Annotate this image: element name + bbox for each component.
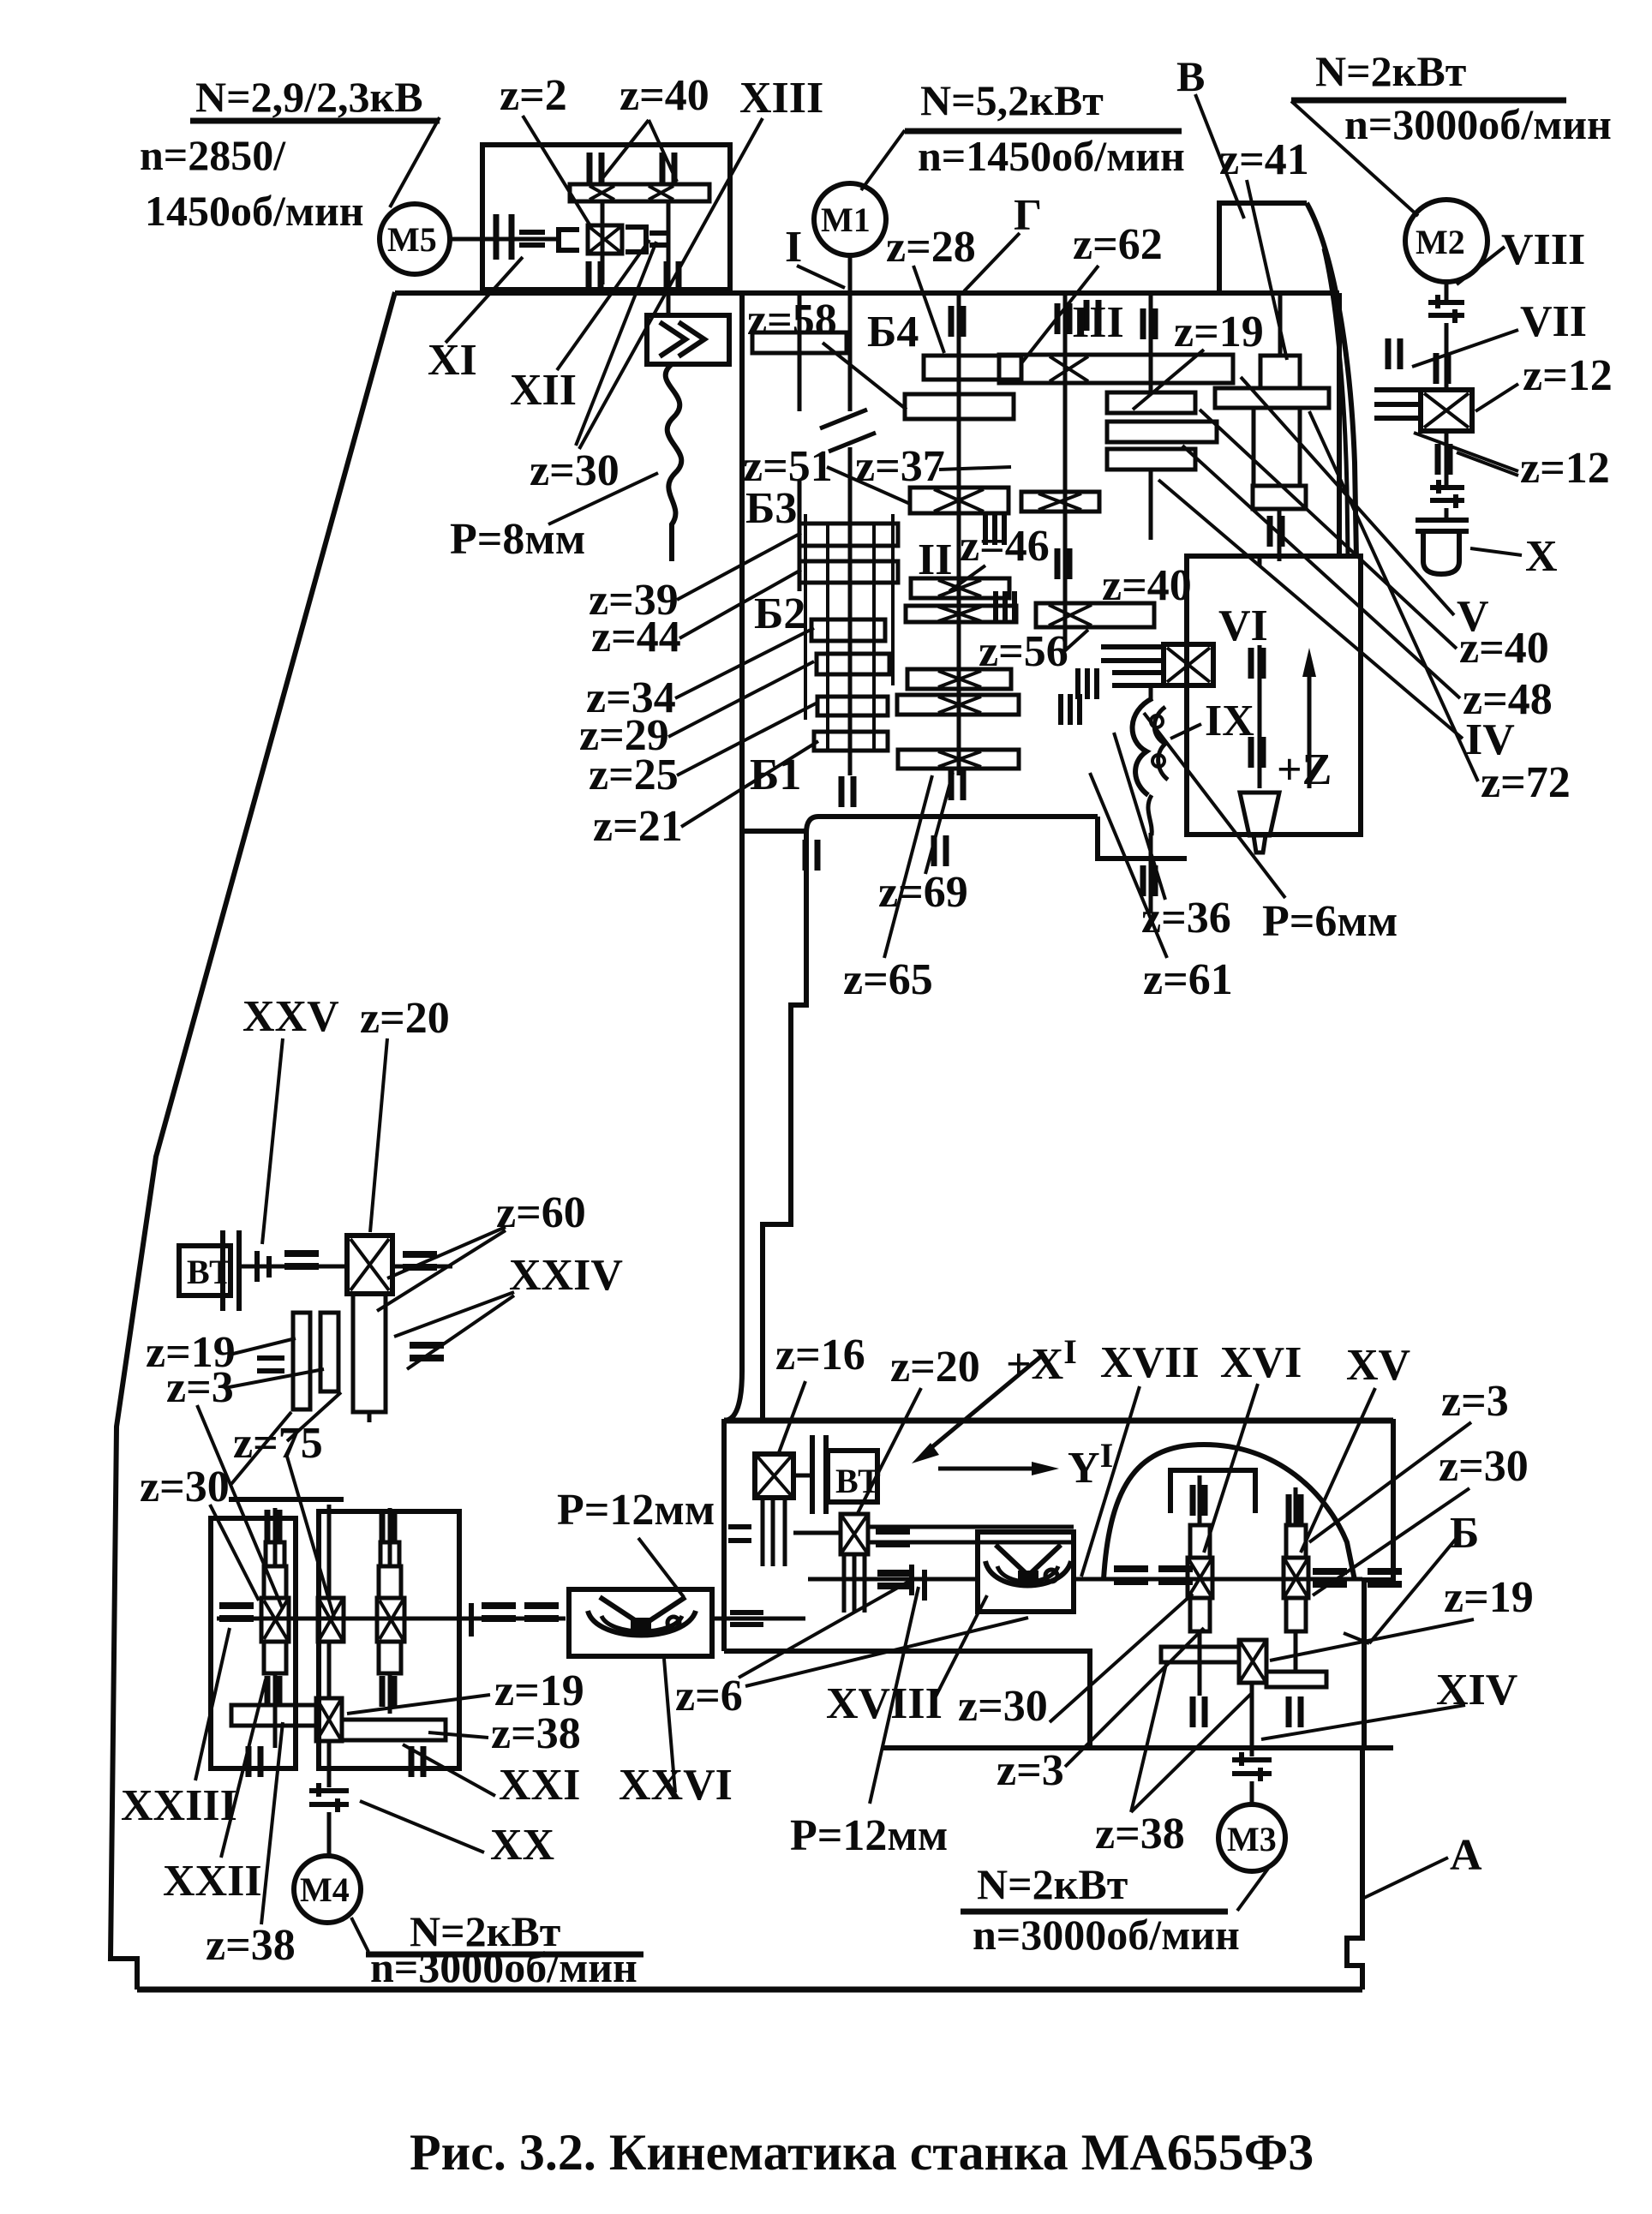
gear L bottom — [898, 750, 1019, 769]
z=19 pinion and spindle V — [1260, 356, 1300, 388]
svg-text:z=36: z=36 — [1141, 894, 1231, 942]
svg-text:XVIII: XVIII — [826, 1679, 943, 1728]
table right edge with steps — [1364, 1419, 1393, 1748]
svg-text:XIII: XIII — [739, 74, 823, 123]
z=28 gear on II — [924, 356, 1021, 380]
svg-text:z=69: z=69 — [878, 868, 968, 917]
svg-text:z=41: z=41 — [1219, 135, 1309, 184]
VI quill box — [1187, 556, 1361, 835]
head bottom edge with step — [763, 817, 1098, 1421]
chevron coupling box — [647, 315, 729, 364]
worm gear box z=2 — [588, 225, 622, 254]
coupling XI — [496, 214, 512, 260]
head bottom step to VI box — [1098, 817, 1187, 859]
svg-text:z=40: z=40 — [1459, 624, 1549, 673]
leaders lower-left — [195, 1628, 230, 1780]
main horizontal shaft — [217, 1617, 566, 1621]
svg-text:VII: VII — [1520, 297, 1587, 346]
svg-text:Р=8мм: Р=8мм — [450, 515, 585, 564]
svg-text:Б: Б — [1450, 1509, 1479, 1558]
svg-text:М2: М2 — [1416, 223, 1465, 261]
svg-text:Б1: Б1 — [750, 751, 801, 799]
svg-text:III: III — [1072, 298, 1124, 347]
bearings lower head — [805, 840, 817, 871]
column B outline — [1219, 203, 1307, 293]
svg-text:Б2: Б2 — [754, 589, 805, 638]
z=40 rack + gearbox mid — [1101, 647, 1164, 661]
svg-text:z=3: z=3 — [1441, 1377, 1509, 1426]
z=56 gear on III — [1036, 603, 1154, 627]
underlines — [190, 118, 440, 124]
svg-text:XXIII: XXIII — [121, 1781, 237, 1830]
svg-text:z=30: z=30 — [530, 446, 619, 495]
svg-text:z=19: z=19 — [1444, 1573, 1534, 1622]
svg-text:z=28: z=28 — [886, 223, 976, 272]
IV gear stack — [1107, 392, 1195, 413]
screw to saddle — [1074, 1577, 1362, 1582]
svg-text:z=65: z=65 — [843, 955, 933, 1004]
svg-text:XVI: XVI — [1220, 1338, 1302, 1387]
svg-text:XXIV: XXIV — [509, 1251, 623, 1300]
svg-text:z=56: z=56 — [979, 627, 1068, 676]
svg-text:z=40: z=40 — [619, 71, 709, 120]
svg-text:z=37: z=37 — [855, 442, 945, 491]
svg-text:Р=12мм: Р=12мм — [790, 1811, 948, 1860]
svg-text:Р=12мм: Р=12мм — [557, 1486, 715, 1535]
svg-text:z=21: z=21 — [593, 802, 683, 851]
table top line (base/saddle support) — [724, 1418, 1393, 1424]
svg-text:ВТ: ВТ — [187, 1253, 232, 1291]
svg-text:Рис. 3.2. Кинематика станка МА: Рис. 3.2. Кинематика станка МА655Ф3 — [410, 2124, 1314, 2181]
svg-text:I: I — [785, 223, 802, 272]
svg-text:z=30: z=30 — [1439, 1442, 1529, 1491]
svg-text:В: В — [1176, 52, 1205, 100]
svg-text:z=20: z=20 — [890, 1343, 980, 1391]
svg-text:1450об/мин: 1450об/мин — [145, 187, 364, 235]
block sleeves — [805, 514, 893, 751]
svg-text:Р=6мм: Р=6мм — [1262, 897, 1398, 946]
couplings on main shaft — [459, 1603, 471, 1637]
svg-text:z=12: z=12 — [1520, 444, 1610, 493]
svg-text:z=30: z=30 — [140, 1463, 230, 1511]
svg-text:XV: XV — [1346, 1341, 1410, 1390]
Б3 block — [799, 524, 898, 546]
vertical shaft at 1326 from z40 box down — [1078, 668, 1097, 699]
X1 arrow — [924, 1356, 1041, 1454]
leaders XXV cluster — [262, 1038, 283, 1244]
coupling X — [1430, 480, 1464, 508]
tool cone — [1240, 793, 1279, 835]
svg-text:n=3000об/мин: n=3000об/мин — [370, 1943, 637, 1991]
svg-text:X: X — [1525, 532, 1558, 581]
svg-text:z=44: z=44 — [591, 613, 681, 661]
svg-text:z=19: z=19 — [1174, 308, 1264, 356]
svg-text:N=5,2кВт: N=5,2кВт — [920, 76, 1104, 124]
XIV bevel — [1239, 1640, 1266, 1683]
svg-text:z=20: z=20 — [360, 994, 450, 1043]
svg-text:XXII: XXII — [163, 1857, 262, 1906]
Б4 gear — [905, 394, 1014, 419]
svg-text:XXVI: XXVI — [619, 1761, 733, 1810]
svg-text:n=2850/: n=2850/ — [140, 131, 286, 179]
ballscrew wavy line P=8mm — [666, 364, 682, 561]
leaders right side — [1457, 247, 1505, 284]
svg-text:z=19: z=19 — [494, 1666, 584, 1715]
screw shaft Y — [808, 1577, 978, 1582]
head top line — [395, 290, 1339, 296]
svg-text:n=1450об/мин: n=1450об/мин — [918, 132, 1185, 180]
leaders bottom-right — [778, 1381, 805, 1455]
svg-text:VIII: VIII — [1501, 225, 1585, 274]
svg-text:z=38: z=38 — [206, 1921, 296, 1970]
svg-text:z=3: z=3 — [166, 1363, 234, 1412]
svg-text:Б3: Б3 — [745, 484, 797, 533]
z=62 long gear on III — [999, 355, 1233, 383]
svg-text:z=46: z=46 — [960, 522, 1050, 571]
svg-text:XII: XII — [510, 366, 577, 415]
svg-text:z=30: z=30 — [958, 1682, 1048, 1731]
gear E on II — [910, 488, 1009, 513]
svg-text:z=38: z=38 — [1095, 1810, 1185, 1858]
svg-text:z=40: z=40 — [1102, 561, 1192, 610]
shaft I vertical with break — [848, 255, 853, 411]
Y1 arrow — [938, 1467, 1044, 1471]
gear H — [906, 606, 1016, 622]
Б-shaft sleeve left of I — [798, 293, 802, 591]
svg-text:IV: IV — [1465, 715, 1515, 764]
gear F on III — [1021, 492, 1099, 512]
Б1 block — [817, 697, 888, 715]
svg-text:YI: YI — [1068, 1436, 1113, 1493]
svg-text:XX: XX — [490, 1821, 554, 1870]
+Z arrow — [1308, 658, 1312, 788]
svg-text:z=38: z=38 — [491, 1709, 581, 1758]
head right edge — [1337, 293, 1342, 556]
plunger cup — [1416, 520, 1469, 531]
coupling VIII — [1428, 295, 1464, 323]
z=46 gear — [911, 578, 1009, 598]
shaft II — [957, 293, 961, 775]
svg-text:z=72: z=72 — [1481, 758, 1571, 807]
svg-text:z=12: z=12 — [1523, 351, 1613, 400]
shaft III — [1063, 293, 1068, 651]
svg-text:XI: XI — [428, 336, 477, 385]
svg-text:VI: VI — [1218, 601, 1268, 650]
leaders top-left — [390, 117, 440, 207]
saddle dome — [1104, 1445, 1355, 1580]
svg-text:М5: М5 — [387, 220, 437, 259]
svg-text:ВТ: ВТ — [835, 1462, 881, 1500]
svg-text:z=62: z=62 — [1073, 220, 1163, 269]
vertical shafts XII / z30 — [602, 201, 668, 316]
machine column outline (left slanted edge) — [111, 292, 395, 1990]
svg-text:М1: М1 — [821, 200, 871, 239]
svg-text:М3: М3 — [1227, 1820, 1277, 1858]
svg-text:z=3: z=3 — [997, 1746, 1064, 1795]
svg-text:Г: Г — [1014, 191, 1042, 240]
bearings below box — [589, 261, 601, 292]
motor M5 — [380, 204, 450, 274]
z=58 gear — [752, 332, 847, 353]
svg-text:z=58: z=58 — [747, 296, 837, 344]
saddle area lines — [724, 1651, 1090, 1748]
svg-text:N=2кВт: N=2кВт — [1315, 47, 1466, 95]
sliding sleeve — [559, 230, 579, 250]
gear K — [897, 695, 1019, 715]
connector head bottom — [742, 829, 806, 834]
shaft from M5 — [450, 237, 559, 242]
svg-text:II: II — [918, 536, 952, 584]
shaft XIII gear bar — [570, 184, 709, 201]
long diagonal leaders V z40 z48 IV z72 — [1241, 377, 1454, 615]
head tall left wall down to base — [724, 293, 742, 1421]
svg-text:XVII: XVII — [1100, 1338, 1200, 1387]
svg-text:N=2,9/2,3кВ: N=2,9/2,3кВ — [195, 73, 423, 121]
gear J — [907, 669, 1011, 689]
svg-text:z=2: z=2 — [500, 71, 567, 120]
bars right of worm box — [625, 227, 646, 252]
leaders center — [823, 343, 907, 410]
table left edge — [721, 1419, 727, 1651]
gear bars below — [293, 1313, 310, 1409]
svg-text:n=3000об/мин: n=3000об/мин — [1344, 100, 1612, 148]
svg-text:z=61: z=61 — [1143, 955, 1233, 1004]
svg-text:М4: М4 — [300, 1870, 350, 1909]
svg-text:z=75: z=75 — [233, 1419, 323, 1468]
svg-text:А: А — [1450, 1831, 1482, 1880]
svg-text:z=6: z=6 — [675, 1672, 743, 1720]
IX ballnut curly — [1133, 698, 1152, 795]
bearings above XIII — [590, 153, 602, 183]
Б2 block — [811, 619, 885, 641]
gearbox box — [482, 145, 730, 290]
svg-text:z=16: z=16 — [775, 1331, 865, 1379]
machine base bottom line — [137, 1987, 1362, 1993]
lower cross shaft XX / z19 z38 — [316, 1698, 342, 1741]
svg-text:IX: IX — [1205, 697, 1254, 745]
rack bars left — [1374, 390, 1421, 418]
svg-text:+XI: +XI — [1006, 1332, 1077, 1389]
svg-text:XXV: XXV — [242, 992, 339, 1041]
machine base right edge with notch — [1347, 1748, 1362, 1990]
bevel box z=12 — [1421, 390, 1472, 431]
XXVI nut box — [569, 1589, 712, 1656]
svg-text:z=60: z=60 — [496, 1188, 586, 1237]
svg-text:z=25: z=25 — [589, 751, 679, 799]
XVIII nut box — [978, 1532, 1074, 1612]
three vertical shafts with X boxes — [273, 1508, 278, 1748]
svg-text:+Z: +Z — [1277, 745, 1332, 794]
svg-text:Б4: Б4 — [867, 308, 919, 356]
svg-text:N=2кВт: N=2кВт — [977, 1860, 1128, 1908]
svg-text:XXI: XXI — [499, 1761, 580, 1810]
svg-text:XIV: XIV — [1436, 1666, 1517, 1714]
svg-text:n=3000об/мин: n=3000об/мин — [973, 1911, 1240, 1959]
